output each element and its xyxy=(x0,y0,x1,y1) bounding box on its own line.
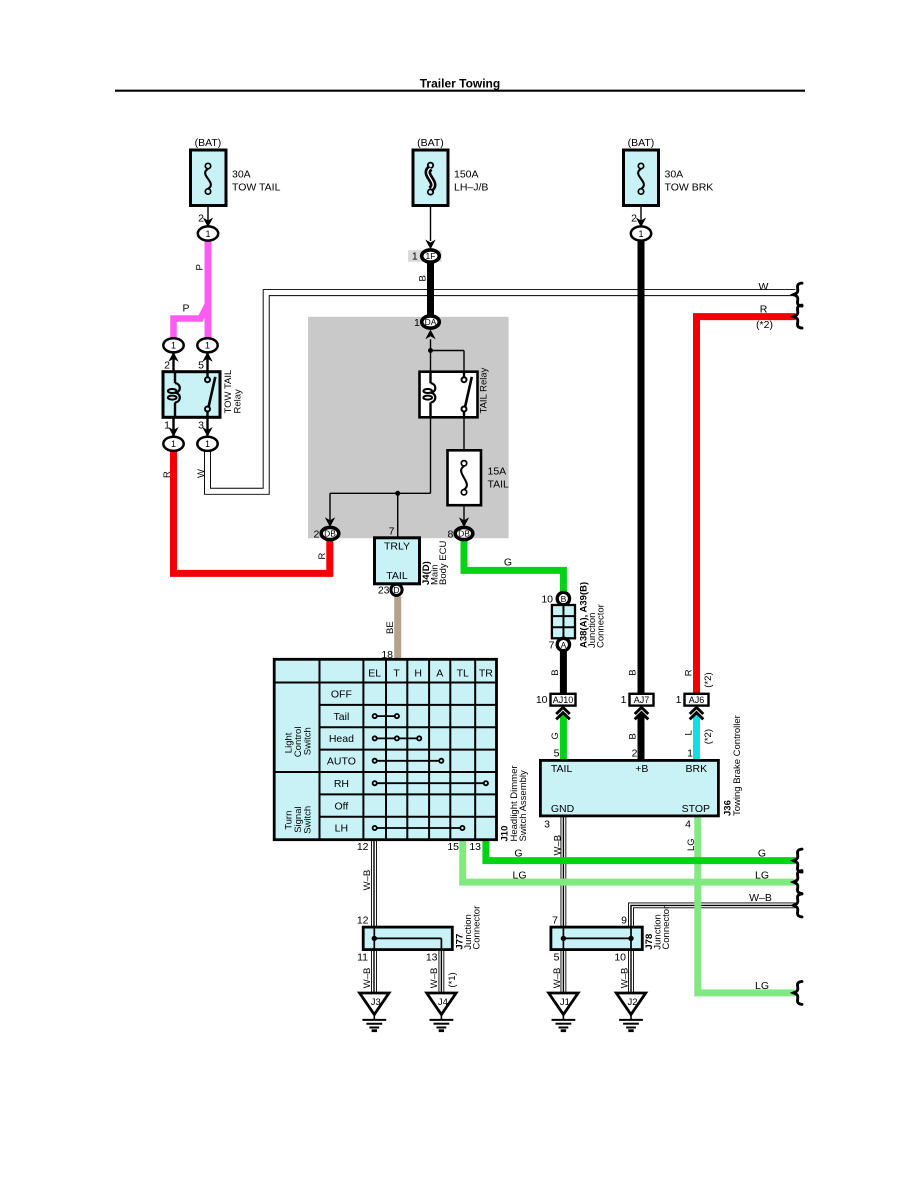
svg-text:DB: DB xyxy=(458,529,470,539)
svg-text:DB: DB xyxy=(324,529,336,539)
svg-text:2: 2 xyxy=(632,748,638,760)
svg-text:LG: LG xyxy=(686,838,697,851)
svg-text:(*2): (*2) xyxy=(703,672,714,687)
svg-text:LH–J/B: LH–J/B xyxy=(454,182,488,194)
svg-text:15A: 15A xyxy=(488,466,507,478)
svg-text:AUTO: AUTO xyxy=(327,756,356,768)
svg-text:LG: LG xyxy=(755,980,769,992)
svg-text:150A: 150A xyxy=(454,169,479,181)
svg-text:LG: LG xyxy=(512,869,526,881)
svg-text:TAIL Relay: TAIL Relay xyxy=(479,367,490,413)
svg-text:15: 15 xyxy=(447,841,459,853)
svg-text:Connector: Connector xyxy=(661,906,672,950)
svg-text:W–B: W–B xyxy=(362,870,373,891)
svg-text:5: 5 xyxy=(198,360,204,372)
svg-text:T: T xyxy=(393,668,400,680)
svg-text:W: W xyxy=(196,469,207,478)
svg-text:Head: Head xyxy=(329,733,354,745)
svg-text:1: 1 xyxy=(164,420,170,432)
svg-text:1: 1 xyxy=(205,229,210,239)
svg-text:1: 1 xyxy=(171,439,176,449)
svg-text:Switch Assembly: Switch Assembly xyxy=(518,770,529,842)
svg-text:1: 1 xyxy=(621,694,627,706)
svg-text:(BAT): (BAT) xyxy=(195,137,222,149)
svg-text:1: 1 xyxy=(412,251,418,263)
svg-text:GND: GND xyxy=(551,803,575,815)
svg-text:J2: J2 xyxy=(627,997,637,1008)
svg-text:1: 1 xyxy=(171,341,176,351)
svg-text:(*2): (*2) xyxy=(756,319,773,331)
svg-text:P: P xyxy=(195,264,206,270)
svg-text:10: 10 xyxy=(541,593,553,605)
svg-text:5: 5 xyxy=(554,748,560,760)
svg-text:30A: 30A xyxy=(232,169,251,181)
svg-text:13: 13 xyxy=(426,951,438,963)
svg-text:AJ7: AJ7 xyxy=(634,695,650,705)
svg-text:TOW TAIL: TOW TAIL xyxy=(232,182,281,194)
svg-text:1: 1 xyxy=(205,439,210,449)
svg-text:G: G xyxy=(514,847,522,859)
svg-text:B: B xyxy=(550,669,561,675)
svg-text:R: R xyxy=(162,471,173,478)
svg-text:LH: LH xyxy=(335,823,348,835)
svg-text:TAIL: TAIL xyxy=(386,570,408,582)
svg-text:Relay: Relay xyxy=(233,389,244,414)
svg-text:R: R xyxy=(760,303,768,315)
svg-text:J4: J4 xyxy=(438,997,448,1008)
svg-text:OFF: OFF xyxy=(331,688,352,700)
svg-text:W–B: W–B xyxy=(362,968,373,989)
svg-text:2: 2 xyxy=(164,360,170,372)
svg-text:7: 7 xyxy=(552,914,558,926)
svg-text:Switch: Switch xyxy=(303,727,314,755)
svg-text:G: G xyxy=(758,847,766,859)
svg-text:Body ECU: Body ECU xyxy=(438,541,449,585)
svg-text:J3: J3 xyxy=(371,997,381,1008)
svg-text:AJ6: AJ6 xyxy=(689,695,705,705)
svg-text:W–B: W–B xyxy=(553,835,564,856)
svg-text:9: 9 xyxy=(621,914,627,926)
svg-text:1: 1 xyxy=(414,317,420,329)
svg-text:STOP: STOP xyxy=(682,803,710,815)
svg-text:LG: LG xyxy=(755,869,769,881)
svg-text:Towing Brake Controller: Towing Brake Controller xyxy=(732,715,743,816)
svg-text:5: 5 xyxy=(554,951,560,963)
svg-text:BE: BE xyxy=(385,621,396,634)
svg-text:TL: TL xyxy=(457,668,469,680)
svg-text:TRLY: TRLY xyxy=(384,541,410,553)
svg-text:23: 23 xyxy=(378,585,390,597)
svg-text:2: 2 xyxy=(198,213,204,225)
svg-text:W–B: W–B xyxy=(552,968,563,989)
svg-text:J1: J1 xyxy=(560,997,570,1008)
svg-text:8: 8 xyxy=(447,528,453,540)
svg-text:12: 12 xyxy=(357,914,369,926)
svg-text:G: G xyxy=(504,557,512,569)
svg-text:W: W xyxy=(759,281,769,293)
svg-text:A: A xyxy=(561,640,567,650)
svg-text:13: 13 xyxy=(469,841,481,853)
svg-text:11: 11 xyxy=(357,951,368,963)
svg-text:W–B: W–B xyxy=(620,968,631,989)
svg-text:3: 3 xyxy=(198,420,204,432)
svg-text:W–B: W–B xyxy=(749,892,772,904)
svg-text:R: R xyxy=(317,553,328,560)
svg-text:1: 1 xyxy=(205,341,210,351)
svg-text:TAIL: TAIL xyxy=(551,763,573,775)
svg-text:12: 12 xyxy=(357,841,369,853)
svg-text:B: B xyxy=(418,275,429,281)
svg-text:2: 2 xyxy=(313,528,319,540)
svg-text:TOW BRK: TOW BRK xyxy=(665,182,714,194)
svg-text:A: A xyxy=(436,668,443,680)
svg-text:4: 4 xyxy=(685,818,691,830)
svg-text:Connector: Connector xyxy=(472,906,483,950)
svg-text:Off: Off xyxy=(334,800,348,812)
svg-text:D: D xyxy=(393,585,399,595)
svg-text:(BAT): (BAT) xyxy=(417,137,444,149)
svg-text:1: 1 xyxy=(687,748,693,760)
svg-text:(*1): (*1) xyxy=(447,972,458,987)
svg-text:+B: +B xyxy=(635,763,648,775)
svg-text:R: R xyxy=(684,669,695,676)
svg-text:7: 7 xyxy=(549,639,555,651)
svg-text:EL: EL xyxy=(368,668,381,680)
svg-text:Connector: Connector xyxy=(596,604,607,648)
svg-text:Tail: Tail xyxy=(334,711,350,723)
svg-text:P: P xyxy=(182,303,189,315)
svg-text:TR: TR xyxy=(479,668,493,680)
svg-text:H: H xyxy=(414,668,422,680)
svg-text:2: 2 xyxy=(631,213,637,225)
svg-text:(*2): (*2) xyxy=(703,729,714,744)
svg-text:1F: 1F xyxy=(426,251,436,261)
svg-text:10: 10 xyxy=(536,694,548,706)
svg-text:Switch: Switch xyxy=(303,806,314,834)
svg-text:30A: 30A xyxy=(665,169,684,181)
svg-text:B: B xyxy=(561,594,567,604)
svg-text:B: B xyxy=(628,669,639,675)
svg-text:RH: RH xyxy=(334,778,349,790)
svg-text:BRK: BRK xyxy=(686,763,708,775)
svg-text:3: 3 xyxy=(544,818,550,830)
svg-text:B: B xyxy=(628,733,639,739)
svg-text:10: 10 xyxy=(614,951,626,963)
svg-text:DA: DA xyxy=(425,317,437,327)
svg-text:(BAT): (BAT) xyxy=(628,137,655,149)
svg-text:AJ10: AJ10 xyxy=(553,695,574,705)
svg-text:L: L xyxy=(684,730,695,735)
svg-text:7: 7 xyxy=(389,526,395,538)
svg-text:W–B: W–B xyxy=(429,968,440,989)
svg-text:G: G xyxy=(550,732,561,739)
svg-text:1: 1 xyxy=(676,694,682,706)
svg-text:TAIL: TAIL xyxy=(488,479,510,491)
svg-text:Trailer Towing: Trailer Towing xyxy=(420,77,500,91)
svg-text:1: 1 xyxy=(638,229,643,239)
